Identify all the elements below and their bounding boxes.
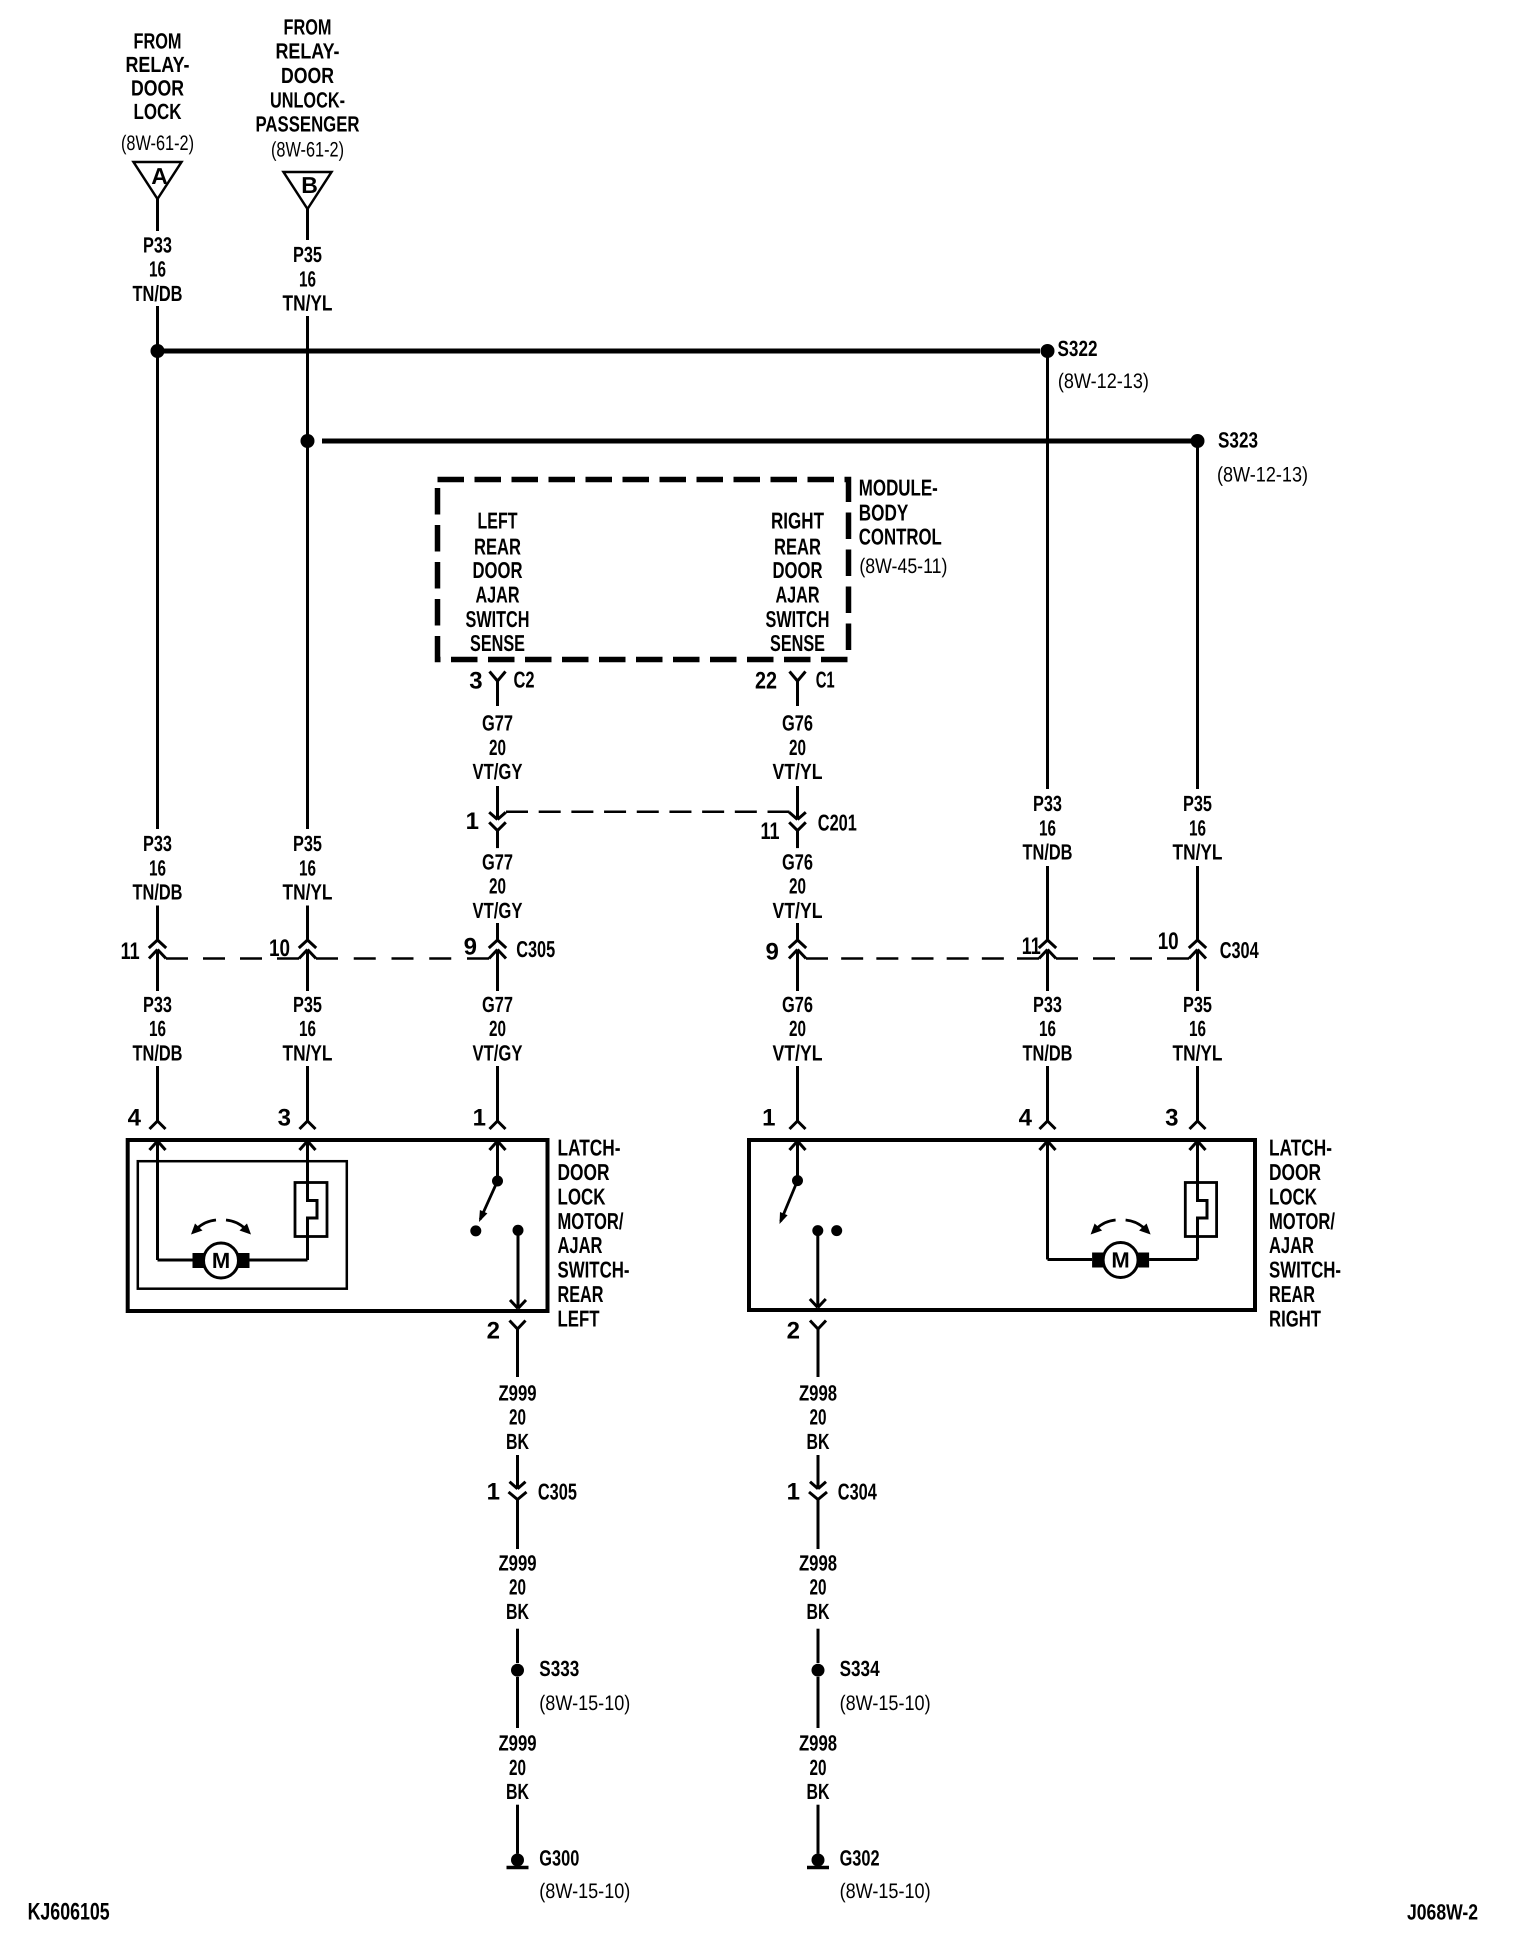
svg-text:RELAY-: RELAY-: [126, 52, 190, 77]
connector C305 pin 11 (col A) symbol: [149, 940, 166, 959]
svg-text:UNLOCK-: UNLOCK-: [270, 87, 345, 112]
wire Z998 below S334: [817, 1677, 820, 1728]
wire label Z998 20 BK (upper): [799, 1380, 837, 1454]
svg-text:(8W-61-2): (8W-61-2): [121, 132, 194, 155]
svg-text:1: 1: [762, 1105, 775, 1132]
wire into C305 pin 9 (col C): [496, 923, 499, 940]
svg-text:20: 20: [789, 735, 806, 760]
reference (8W-15-10) for S333: [539, 1692, 630, 1715]
svg-text:16: 16: [149, 855, 166, 880]
wire into C304 pin 10 (col F): [1196, 866, 1199, 940]
svg-text:P35: P35: [1183, 791, 1212, 816]
wire label Z999 20 BK (upper): [499, 1380, 537, 1454]
svg-text:RELAY-: RELAY-: [276, 39, 340, 64]
svg-text:20: 20: [810, 1405, 827, 1430]
C201 connector dashed line: [506, 810, 790, 813]
svg-text:(8W-12-13): (8W-12-13): [1217, 463, 1308, 486]
pin number 9 at C304: [765, 939, 778, 966]
svg-text:1: 1: [466, 808, 479, 835]
svg-text:DOOR: DOOR: [131, 76, 184, 101]
connector pin 2 below box (Z998 side): [810, 1321, 826, 1378]
svg-text:C1: C1: [816, 667, 835, 693]
connector label C1: [816, 667, 835, 693]
wire label G77 20 VT/GY (col C low): [473, 992, 523, 1066]
connector label C2: [514, 667, 535, 693]
svg-text:AJAR: AJAR: [476, 582, 520, 608]
connector C201 pin 11 symbol: [789, 812, 806, 848]
svg-text:(8W-15-10): (8W-15-10): [840, 1880, 931, 1903]
reference (8W-61-2) for relay-door lock: [121, 132, 194, 155]
component label MODULE-BODY CONTROL: [859, 475, 942, 550]
pin number 10 at C304: [1158, 928, 1179, 955]
svg-text:RIGHT: RIGHT: [1269, 1305, 1321, 1331]
svg-text:C2: C2: [514, 667, 535, 693]
wire P33 col E from S322: [1046, 351, 1049, 789]
wire below C305 pin 11 (col A): [156, 950, 159, 992]
wire Z999 below S333: [516, 1677, 519, 1728]
svg-text:CONTROL: CONTROL: [859, 524, 942, 550]
svg-text:FROM: FROM: [284, 15, 332, 40]
splice S322 bus wire: [158, 349, 1041, 354]
connector C304 pin 9 (col D) symbol: [789, 940, 806, 959]
pin number 3 at latch right pin 3: [1165, 1105, 1178, 1132]
svg-text:Z999: Z999: [499, 1380, 537, 1405]
svg-text:C201: C201: [818, 810, 857, 836]
svg-text:TN/DB: TN/DB: [1023, 1041, 1073, 1066]
svg-text:SWITCH-: SWITCH-: [1269, 1257, 1341, 1283]
wire label G76 20 VT/YL (col D low): [773, 992, 823, 1066]
wire G77 into C201: [496, 786, 499, 820]
svg-text:LATCH-: LATCH-: [558, 1135, 621, 1161]
svg-text:B: B: [301, 172, 318, 198]
BCM pin label LEFT REAR DOOR AJAR SWITCH SENSE: [466, 508, 530, 656]
wire label Z998 20 BK (lower): [799, 1731, 837, 1805]
svg-text:VT/YL: VT/YL: [773, 1041, 823, 1066]
svg-text:TN/DB: TN/DB: [133, 281, 183, 306]
latch-door lock motor/ajar switch-rear left box: [128, 1140, 548, 1311]
svg-text:J068W-2: J068W-2: [1407, 1900, 1478, 1925]
component label LATCH-DOOR LOCK MOTOR/AJAR SWITCH-REAR LEFT: [558, 1135, 630, 1332]
svg-text:A: A: [151, 163, 168, 189]
svg-text:16: 16: [149, 257, 166, 282]
right ajar switch contact dots: [812, 1225, 842, 1236]
svg-text:(8W-15-10): (8W-15-10): [539, 1692, 630, 1715]
svg-text:(8W-61-2): (8W-61-2): [271, 138, 344, 161]
left ajar switch common dot: [490, 1141, 506, 1187]
wire into latch right pin 4: [1040, 1066, 1056, 1129]
svg-text:2: 2: [787, 1318, 800, 1345]
right lock to motor wire: [1149, 1237, 1197, 1260]
connector pin 22 of C1 symbol: [790, 672, 806, 707]
svg-text:BK: BK: [807, 1429, 830, 1454]
pin number 11 at C305: [121, 938, 140, 965]
left lock to motor wire: [250, 1237, 308, 1261]
pin number 4 at latch left pin 4: [128, 1105, 142, 1132]
C305 dashed line col A to col B: [166, 957, 299, 960]
connector pin 2 below box (Z999 side): [510, 1321, 526, 1378]
right ajar switch lever: [780, 1181, 798, 1224]
wire label G77 20 VT/GY (col C mid): [473, 849, 523, 923]
left latch pin 3 internal wire: [300, 1141, 316, 1183]
connector label C305: [538, 1478, 577, 1504]
svg-text:P33: P33: [143, 232, 172, 257]
svg-text:C304: C304: [1220, 937, 1259, 963]
svg-text:(8W-12-13): (8W-12-13): [1058, 370, 1149, 393]
svg-text:(8W-15-10): (8W-15-10): [539, 1880, 630, 1903]
svg-text:16: 16: [299, 1016, 316, 1041]
svg-text:16: 16: [299, 266, 316, 291]
svg-text:20: 20: [489, 735, 506, 760]
reference (8W-15-10) for G302: [840, 1880, 931, 1903]
pin number 9 at C305: [464, 933, 477, 960]
right switch output wire pin 2: [810, 1231, 826, 1308]
svg-text:16: 16: [1039, 815, 1056, 840]
connector label C201: [818, 810, 857, 836]
svg-text:20: 20: [789, 874, 806, 899]
wire into latch left pin 3: [300, 1066, 316, 1129]
svg-text:SENSE: SENSE: [770, 630, 825, 656]
svg-text:VT/GY: VT/GY: [473, 759, 523, 784]
svg-text:TN/YL: TN/YL: [283, 880, 333, 905]
wire label P33 16 TN/DB (col E mid): [1023, 791, 1073, 865]
svg-text:C304: C304: [838, 1478, 877, 1504]
right ajar switch common dot: [790, 1141, 806, 1186]
wire label P35 16 TN/YL (col F mid): [1173, 791, 1223, 865]
svg-text:3: 3: [278, 1105, 291, 1132]
svg-text:TN/YL: TN/YL: [1173, 1041, 1223, 1066]
wire label G76 20 VT/YL (above C201): [773, 711, 823, 785]
svg-text:VT/GY: VT/GY: [473, 1041, 523, 1066]
wire below C304 pin 9 (col D): [796, 950, 799, 992]
svg-text:P33: P33: [143, 831, 172, 856]
wire below C304 pin 11 (col E): [1046, 950, 1049, 992]
C305 dashed line col B to col C: [316, 957, 489, 960]
svg-text:P35: P35: [293, 831, 322, 856]
svg-text:20: 20: [810, 1755, 827, 1780]
svg-text:G77: G77: [482, 992, 513, 1017]
svg-text:LEFT: LEFT: [558, 1305, 600, 1331]
svg-text:16: 16: [299, 855, 316, 880]
node label FROM RELAY-DOOR UNLOCK-PASSENGER: [256, 15, 360, 137]
svg-text:REAR: REAR: [1269, 1281, 1315, 1307]
wire Z998 below C304: [817, 1500, 820, 1550]
svg-text:TN/DB: TN/DB: [133, 1041, 183, 1066]
svg-text:REAR: REAR: [774, 534, 821, 560]
connector C305 pin 1 symbol: [509, 1482, 527, 1500]
svg-text:VT/YL: VT/YL: [773, 759, 823, 784]
left ajar switch contact dots: [470, 1225, 523, 1237]
left latch inner enclosure: [138, 1161, 347, 1289]
wire P33 col A S322 to C305: [156, 351, 159, 829]
pin number 2 (Z999 side): [487, 1318, 500, 1345]
svg-text:4: 4: [128, 1105, 142, 1132]
wire below C305 pin 9 (col C): [496, 950, 499, 992]
svg-text:Z999: Z999: [499, 1550, 537, 1575]
connector C304 pin 1 symbol: [809, 1482, 827, 1500]
svg-text:16: 16: [1189, 1016, 1206, 1041]
wire P35 col B S323 to C305: [306, 441, 309, 829]
wire label P33 16 TN/DB (col A top): [133, 232, 183, 306]
svg-text:BK: BK: [506, 1429, 529, 1454]
pin number 11 at C201: [761, 818, 780, 845]
wire label G77 20 VT/GY (above C201): [473, 711, 523, 785]
svg-text:KJ606105: KJ606105: [28, 1899, 110, 1926]
latch-door lock motor/ajar switch-rear right box: [749, 1140, 1255, 1310]
svg-text:S322: S322: [1058, 336, 1098, 361]
svg-text:Z998: Z998: [799, 1550, 837, 1575]
wire label Z999 20 BK (lower): [499, 1731, 537, 1805]
svg-text:MOTOR/: MOTOR/: [1269, 1208, 1335, 1234]
svg-text:RIGHT: RIGHT: [771, 508, 824, 534]
wire label Z999 20 BK (middle): [499, 1550, 537, 1624]
svg-text:G77: G77: [482, 849, 513, 874]
svg-text:16: 16: [1039, 1016, 1056, 1041]
svg-text:S334: S334: [840, 1656, 881, 1681]
svg-text:9: 9: [464, 933, 477, 960]
pin number 2 (Z998 side): [787, 1318, 800, 1345]
svg-text:LEFT: LEFT: [478, 508, 518, 534]
junction dot at col A on S322: [151, 344, 165, 358]
connector label C304 (row): [1220, 937, 1259, 963]
svg-text:20: 20: [489, 874, 506, 899]
pin number 1 at C305: [487, 1479, 500, 1506]
svg-text:20: 20: [789, 1016, 806, 1041]
svg-text:BK: BK: [807, 1779, 830, 1804]
wire P33 to splice S322: [156, 306, 159, 351]
wire Z999 into ground G300: [516, 1805, 519, 1854]
connector C304 pin 11 (col E) symbol: [1039, 940, 1056, 959]
wire Z998 into splice S334: [817, 1629, 820, 1663]
wire Z999 into C305: [516, 1455, 519, 1489]
svg-text:G302: G302: [840, 1845, 880, 1870]
svg-text:20: 20: [509, 1755, 526, 1780]
svg-text:P35: P35: [293, 992, 322, 1017]
svg-text:20: 20: [489, 1016, 506, 1041]
svg-text:4: 4: [1019, 1105, 1033, 1132]
off-page connector triangle A: [134, 162, 182, 199]
wire label Z998 20 BK (middle): [799, 1550, 837, 1624]
C304 dashed line col D to col E: [806, 957, 1039, 960]
wire label P35 16 TN/YL (col B mid): [283, 831, 333, 905]
connector C305 pin 10 (col B) symbol: [299, 940, 316, 959]
wire P33 below triangle A: [156, 199, 159, 231]
svg-text:1: 1: [787, 1479, 800, 1506]
sheet number KJ606105: [28, 1899, 110, 1926]
splice S333 dot: [511, 1664, 524, 1677]
left ajar switch lever: [479, 1181, 498, 1222]
svg-text:BODY: BODY: [859, 499, 909, 525]
reference (8W-15-10) for G300: [539, 1880, 630, 1903]
svg-text:LOCK: LOCK: [134, 99, 182, 124]
svg-text:SENSE: SENSE: [470, 630, 525, 656]
wire into latch right pin 3: [1190, 1066, 1206, 1129]
svg-text:BK: BK: [807, 1599, 830, 1624]
wire below C305 pin 10 (col B): [306, 950, 309, 992]
wire label P35 16 TN/YL (col B top): [283, 242, 333, 316]
svg-text:(8W-45-11): (8W-45-11): [859, 555, 947, 578]
wire P35 to splice S323: [306, 316, 309, 441]
svg-text:Z998: Z998: [799, 1380, 837, 1405]
left lock actuator symbol: [295, 1183, 327, 1237]
svg-text:3: 3: [1165, 1105, 1178, 1132]
svg-text:S333: S333: [539, 1656, 579, 1681]
svg-text:P35: P35: [293, 242, 322, 267]
svg-text:P33: P33: [1033, 992, 1062, 1017]
wire label P33 16 TN/DB (col E low): [1023, 992, 1073, 1066]
svg-text:TN/YL: TN/YL: [283, 1041, 333, 1066]
svg-text:10: 10: [1158, 928, 1179, 955]
svg-text:16: 16: [1189, 815, 1206, 840]
pin number 10 at C305: [269, 935, 290, 962]
diagram number J068W-2: [1407, 1900, 1478, 1925]
svg-text:20: 20: [509, 1575, 526, 1600]
svg-text:G76: G76: [782, 711, 813, 736]
svg-text:BK: BK: [506, 1779, 529, 1804]
label G302: [840, 1845, 880, 1870]
ground G300 symbol: [507, 1854, 529, 1868]
label S333: [539, 1656, 579, 1681]
label S323: [1218, 428, 1258, 453]
svg-text:22: 22: [755, 667, 777, 694]
connector pin 3 of C2 symbol: [490, 672, 506, 707]
svg-text:Z998: Z998: [799, 1731, 837, 1756]
junction dot at col B on S323: [301, 434, 315, 448]
svg-text:(8W-15-10): (8W-15-10): [840, 1692, 931, 1715]
wire Z999 below C305: [516, 1500, 519, 1550]
off-page connector triangle B: [284, 172, 332, 209]
component label LATCH-DOOR LOCK MOTOR/AJAR SWITCH-REAR RIGHT: [1269, 1135, 1341, 1332]
wire label P33 16 TN/DB (col A mid): [133, 831, 183, 905]
svg-text:PASSENGER: PASSENGER: [256, 111, 360, 136]
svg-text:P33: P33: [1033, 791, 1062, 816]
svg-text:C305: C305: [516, 936, 555, 962]
node label FROM RELAY-DOOR LOCK: [126, 29, 190, 125]
reference (8W-12-13) for S323: [1217, 463, 1308, 486]
right latch pin 4 internal wire: [1040, 1141, 1093, 1260]
splice S323 bus wire: [322, 439, 1191, 444]
label S322: [1058, 336, 1098, 361]
svg-text:SWITCH: SWITCH: [466, 606, 530, 632]
svg-text:REAR: REAR: [474, 534, 521, 560]
svg-text:3: 3: [469, 667, 482, 694]
reference (8W-12-13) for S322: [1058, 370, 1149, 393]
right latch pin 3 internal wire: [1190, 1141, 1206, 1183]
wire Z998 into ground G302: [817, 1805, 820, 1854]
C304 dashed line col E to col F: [1056, 957, 1189, 960]
pin number 1 at latch left pin 1: [473, 1105, 486, 1132]
right lock actuator symbol: [1185, 1183, 1216, 1237]
connector C304 pin 10 (col F) symbol: [1189, 940, 1206, 959]
wire P35 col F from S323: [1196, 441, 1199, 789]
splice S323 dot: [1191, 434, 1205, 448]
connector C305 pin 9 (col C) symbol: [489, 940, 506, 959]
svg-text:REAR: REAR: [558, 1281, 604, 1307]
wire label G76 20 VT/YL (col D mid): [773, 849, 823, 923]
svg-text:G76: G76: [782, 849, 813, 874]
pin number 1 at C304: [787, 1479, 800, 1506]
svg-text:AJAR: AJAR: [776, 582, 820, 608]
right latch motor M: [1092, 1243, 1149, 1278]
svg-text:VT/YL: VT/YL: [773, 898, 823, 923]
svg-text:1: 1: [487, 1479, 500, 1506]
wire P35 below triangle B: [306, 209, 309, 240]
svg-text:MODULE-: MODULE-: [859, 475, 938, 501]
left motor rotation arrows: [191, 1220, 251, 1235]
svg-text:11: 11: [1022, 933, 1041, 960]
wire into C305 pin 10 (col B): [306, 906, 309, 941]
pin number 3 at C2: [469, 667, 482, 694]
svg-text:TN/YL: TN/YL: [1173, 840, 1223, 865]
svg-text:G300: G300: [539, 1845, 579, 1870]
wire into C304 pin 9 (col D): [796, 923, 799, 940]
BCM pin label RIGHT REAR DOOR AJAR SWITCH SENSE: [766, 508, 830, 656]
wire Z999 into splice S333: [516, 1629, 519, 1663]
wire into latch left pin 4: [150, 1066, 166, 1129]
svg-text:TN/YL: TN/YL: [283, 291, 333, 316]
label G300: [539, 1845, 579, 1870]
svg-text:G77: G77: [482, 711, 513, 736]
reference (8W-45-11) for BCM: [859, 555, 947, 578]
splice S334 dot: [812, 1664, 825, 1677]
svg-text:9: 9: [765, 939, 778, 966]
reference (8W-15-10) for S334: [840, 1692, 931, 1715]
svg-text:DOOR: DOOR: [473, 557, 523, 583]
wire below C304 pin 10 (col F): [1196, 950, 1199, 992]
svg-text:LOCK: LOCK: [558, 1183, 606, 1209]
connector C201 pin 1 symbol: [489, 812, 506, 848]
svg-text:TN/DB: TN/DB: [133, 880, 183, 905]
svg-text:DOOR: DOOR: [558, 1159, 610, 1185]
svg-text:TN/DB: TN/DB: [1023, 840, 1073, 865]
pin number 11 at C304: [1022, 933, 1041, 960]
right motor rotation arrows: [1091, 1220, 1151, 1235]
label S334: [840, 1656, 881, 1681]
svg-text:Z999: Z999: [499, 1731, 537, 1756]
svg-text:VT/GY: VT/GY: [473, 898, 523, 923]
svg-text:C305: C305: [538, 1478, 577, 1504]
svg-text:M: M: [1111, 1248, 1129, 1273]
left latch pin 4 internal wire: [150, 1141, 193, 1260]
svg-text:DOOR: DOOR: [1269, 1159, 1321, 1185]
pin number 3 at latch left pin 3: [278, 1105, 291, 1132]
svg-text:P33: P33: [143, 992, 172, 1017]
svg-text:20: 20: [810, 1575, 827, 1600]
svg-text:16: 16: [149, 1016, 166, 1041]
pin number 1 at C201: [466, 808, 479, 835]
svg-text:LATCH-: LATCH-: [1269, 1135, 1332, 1161]
pin number 4 at latch right pin 4: [1019, 1105, 1033, 1132]
svg-text:DOOR: DOOR: [773, 557, 823, 583]
pin number 1 at latch right pin 1: [762, 1105, 775, 1132]
wire into latch left pin 1: [490, 1066, 506, 1129]
svg-text:MOTOR/: MOTOR/: [558, 1208, 624, 1234]
left switch output wire pin 2: [510, 1230, 526, 1308]
wire label P33 16 TN/DB (col A low): [133, 992, 183, 1066]
svg-text:LOCK: LOCK: [1269, 1183, 1317, 1209]
svg-text:DOOR: DOOR: [281, 63, 334, 88]
svg-text:G76: G76: [782, 992, 813, 1017]
svg-text:BK: BK: [506, 1599, 529, 1624]
svg-text:SWITCH-: SWITCH-: [558, 1257, 630, 1283]
left latch motor M: [193, 1243, 250, 1278]
module-body control dashed box: [438, 480, 849, 660]
connector label C305 (row): [516, 936, 555, 962]
svg-text:FROM: FROM: [134, 29, 182, 54]
svg-text:2: 2: [487, 1318, 500, 1345]
svg-text:AJAR: AJAR: [1269, 1232, 1314, 1258]
pin number 22 at C1: [755, 667, 777, 694]
ground G302 symbol: [807, 1854, 829, 1868]
